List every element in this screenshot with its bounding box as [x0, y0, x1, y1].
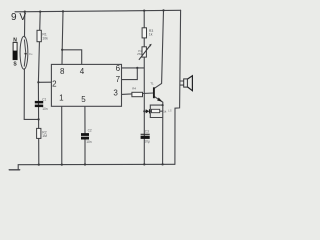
- svg-text:C1: C1: [42, 97, 46, 101]
- svg-text:4: 4: [80, 67, 85, 76]
- trimmer P1: [142, 47, 146, 57]
- svg-text:3: 3: [113, 88, 118, 97]
- svg-text:C3: C3: [145, 130, 149, 134]
- svg-text:Re: Re: [29, 52, 33, 56]
- magnet: [13, 42, 17, 59]
- wire diode-row loop: [150, 105, 162, 117]
- wire pin3 to base: [122, 93, 154, 94]
- svg-text:6: 6: [116, 64, 121, 73]
- svg-text:N: N: [13, 38, 17, 44]
- wire R1/C1/R2 branch vertical: [38, 12, 40, 165]
- diode D1: [146, 109, 150, 113]
- ground bar: [9, 169, 20, 171]
- wire collector to rail: [154, 10, 163, 88]
- svg-text:10k: 10k: [42, 36, 48, 40]
- wire pin5 / C2 vertical: [84, 106, 86, 133]
- resistor R2: [37, 128, 41, 138]
- node pin4 branch: [61, 49, 63, 51]
- svg-text:7: 7: [116, 75, 121, 84]
- loudspeaker LS1: [184, 79, 188, 87]
- node dots bottom rail: [38, 163, 40, 165]
- svg-text:9 V: 9 V: [11, 12, 26, 23]
- wire reed to R1 branch horizontal: [24, 118, 38, 120]
- op-amp/timer IC U1 555 body: [51, 64, 121, 106]
- svg-text:10µ: 10µ: [144, 139, 150, 143]
- svg-text:2: 2: [52, 80, 57, 89]
- wire emitter down: [154, 96, 163, 164]
- node dots top rail: [24, 9, 165, 166]
- svg-text:C2: C2: [88, 128, 92, 132]
- svg-text:1k: 1k: [163, 110, 167, 114]
- svg-text:5: 5: [81, 95, 86, 104]
- wire right component chain vertical R3/P1/C3: [143, 11, 145, 165]
- node emitter/loop top: [162, 104, 164, 106]
- wire diode branch middle: [144, 110, 145, 112]
- wire pin4 branch: [62, 50, 81, 65]
- svg-text:8: 8: [60, 67, 65, 76]
- resistor R3: [142, 28, 146, 38]
- reed switch: [20, 36, 28, 69]
- node reed join: [37, 118, 39, 120]
- wire bottom ground rail: [18, 164, 175, 169]
- node pin2 junction: [37, 81, 39, 83]
- wire pin6 horizontal: [122, 67, 145, 69]
- svg-text:LS: LS: [168, 109, 172, 113]
- svg-text:25k: 25k: [137, 52, 142, 56]
- transistor T1: [153, 87, 155, 98]
- svg-text:10n: 10n: [86, 140, 92, 144]
- svg-text:1k: 1k: [149, 32, 153, 36]
- capacitor C1: [35, 101, 43, 104]
- svg-text:1: 1: [59, 94, 64, 103]
- wire pin1 vertical: [61, 106, 63, 164]
- wire reed switch branch vertical: [24, 12, 26, 37]
- resistor R1: [37, 30, 41, 41]
- capacitor C3 electrolytic: [141, 133, 150, 135]
- wire pin2 horizontal: [38, 81, 51, 83]
- wire speaker stubs: [180, 80, 184, 82]
- node diode branch: [143, 110, 145, 112]
- svg-text:10n: 10n: [42, 107, 48, 111]
- resistor R4: [132, 92, 143, 96]
- resistor R5 in diode row: [152, 109, 160, 112]
- wire pin7 L-branch: [122, 68, 138, 80]
- svg-text:R4: R4: [132, 87, 136, 91]
- wire top supply rail: [15, 10, 181, 12]
- wire pin8 vertical from rail: [62, 11, 63, 64]
- svg-text:T1: T1: [150, 82, 154, 86]
- capacitor C2: [81, 133, 89, 136]
- node pin6/7 junction: [136, 67, 138, 69]
- svg-text:1M: 1M: [42, 134, 47, 138]
- wire right edge vertical (rail corner down to speaker and jog): [175, 10, 181, 164]
